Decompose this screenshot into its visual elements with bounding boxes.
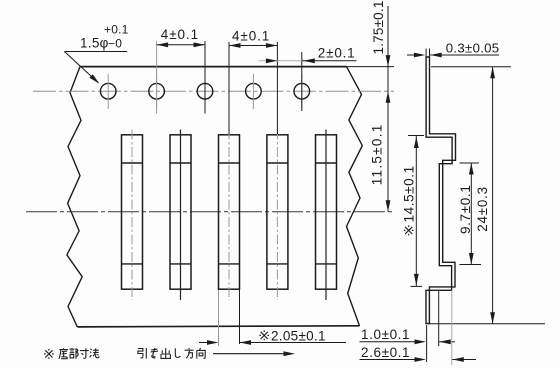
dimension 2.6±0.1 xyxy=(451,290,453,365)
svg-text:4±0.1: 4±0.1 xyxy=(232,29,270,44)
svg-text:0.3±0.05: 0.3±0.05 xyxy=(446,41,500,56)
svg-text:1.5φ: 1.5φ xyxy=(80,36,109,51)
tape middle center line (chain) xyxy=(26,211,394,213)
svg-text:9.7±0.1: 9.7±0.1 xyxy=(458,185,473,235)
sprocket hole 2 xyxy=(149,83,165,99)
svg-text:+0.1: +0.1 xyxy=(104,23,129,37)
note 引き出し方向 pull-out direction xyxy=(138,348,146,359)
dimension 4±0.1 pocket pitch xyxy=(228,42,230,134)
value label ※14.5±0.1 xyxy=(404,225,414,235)
dimension 0.3±0.05 wall thickness xyxy=(425,49,427,58)
dimension 4±0.1 hole pitch xyxy=(156,41,158,114)
svg-text:1.0±0.1: 1.0±0.1 xyxy=(361,327,410,342)
dimension 2±0.1 hole to pocket xyxy=(301,52,303,111)
dimension ※14.5±0.1 xyxy=(408,135,424,137)
component pocket 2 xyxy=(170,135,191,289)
component pocket 5 xyxy=(316,135,337,289)
svg-text:−0: −0 xyxy=(108,37,122,51)
tape outline (left view) xyxy=(80,66,347,68)
tape right torn zigzag edge xyxy=(347,67,363,326)
dimension 1.0±0.1 xyxy=(426,325,428,362)
section profile (cross-section of tape, bent strip outline) xyxy=(426,57,456,324)
sprocket hole center line (chain) xyxy=(33,90,394,92)
svg-text:24±0.3: 24±0.3 xyxy=(475,186,490,232)
sprocket hole 1 xyxy=(100,83,116,99)
note ※ 底部寸法 xyxy=(44,349,54,359)
svg-text:1.75±0.1: 1.75±0.1 xyxy=(371,0,386,54)
svg-text:14.5±0.1: 14.5±0.1 xyxy=(402,165,417,222)
dimension 24±0.3 overall height xyxy=(431,66,511,68)
sprocket hole 3 xyxy=(197,83,213,99)
svg-text:2±0.1: 2±0.1 xyxy=(318,46,356,61)
svg-text:11.5±0.1: 11.5±0.1 xyxy=(369,123,384,185)
svg-text:2.6±0.1: 2.6±0.1 xyxy=(361,345,410,360)
pull-out direction arrow xyxy=(213,353,287,355)
component pocket 3 xyxy=(219,135,240,289)
sprocket hole 4 xyxy=(246,83,262,99)
dimension 9.7±0.1 pocket depth xyxy=(460,162,480,164)
dimension 1.75±0.1 and 11.5±0.1 vertical line xyxy=(347,66,395,68)
tape bottom edge xyxy=(77,326,359,327)
component pocket 4 xyxy=(267,135,288,289)
dimension ※2.05±0.1 pocket bottom width xyxy=(218,290,220,346)
svg-text:4±0.1: 4±0.1 xyxy=(161,27,199,42)
svg-text:2.05±0.1: 2.05±0.1 xyxy=(271,329,326,344)
tape left torn zigzag edge xyxy=(67,67,82,327)
component pocket 1 xyxy=(122,135,143,289)
value label ※2.05±0.1 xyxy=(259,330,269,340)
sprocket hole 5 xyxy=(294,83,310,99)
